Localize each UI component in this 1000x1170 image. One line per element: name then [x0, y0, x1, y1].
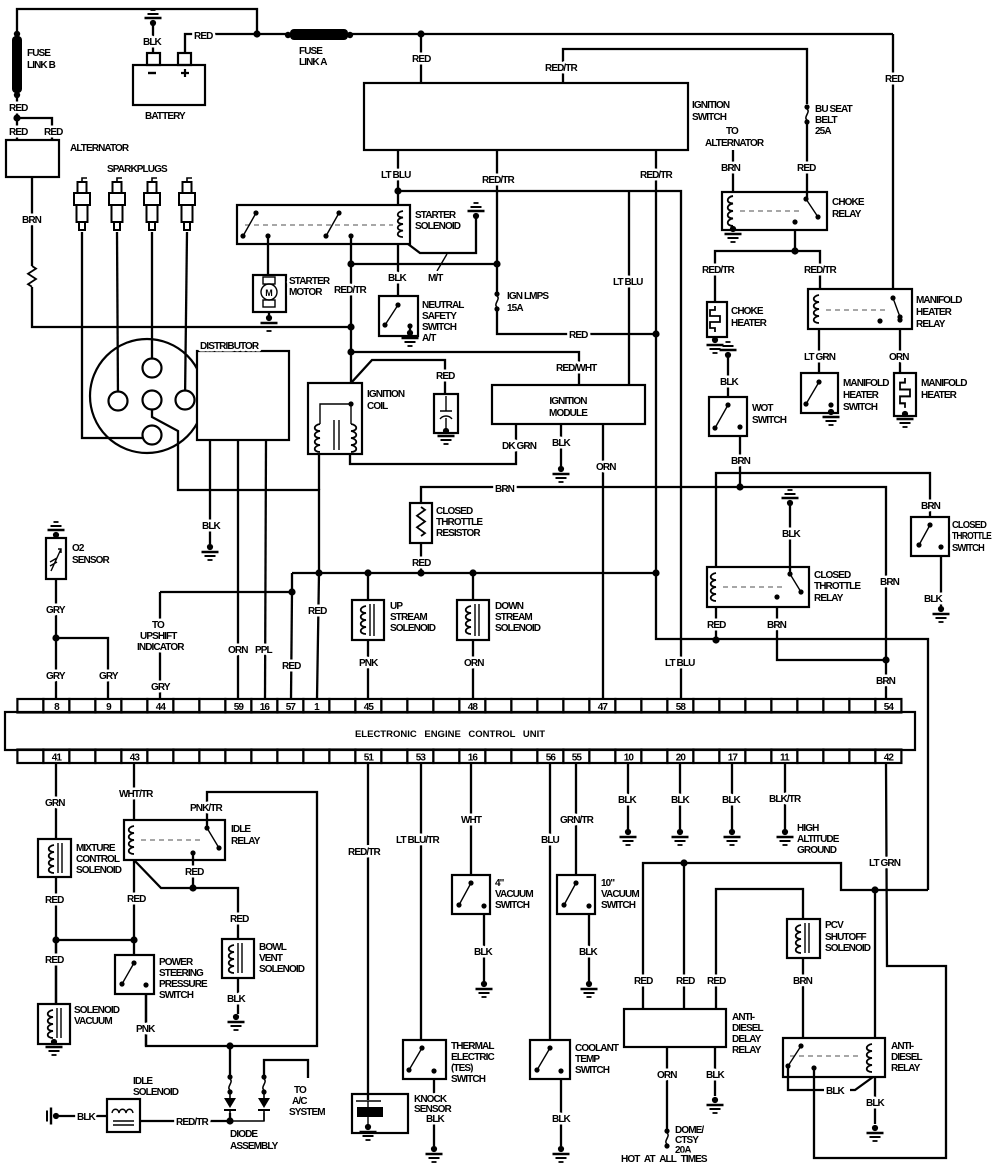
- wire: sparkplug 1 lead to distributor lower tower: [82, 232, 147, 438]
- svg-text:IGNITION: IGNITION: [367, 389, 405, 400]
- svg-text:COOLANT: COOLANT: [575, 1043, 619, 1054]
- svg-text:SWITCH: SWITCH: [952, 543, 985, 554]
- wire: delay relay ORN to dome fuse: [666, 1048, 668, 1129]
- wire: ign lamps fuse to RED junction: [497, 310, 656, 334]
- svg-text:16: 16: [468, 753, 479, 764]
- ground: 4in vacuum: [476, 981, 493, 997]
- svg-text:BLK: BLK: [143, 37, 163, 48]
- ground: idle solenoid side: [47, 1108, 59, 1125]
- wire: TES switch BLK to ground: [433, 1079, 435, 1146]
- svg-text:PRESSURE: PRESSURE: [159, 979, 208, 990]
- ignition module U3: [492, 385, 645, 424]
- svg-text:A/C: A/C: [292, 1096, 307, 1107]
- wire: idle relay coil diagonal to bowl vent line: [134, 860, 238, 939]
- svg-text:BRN: BRN: [880, 577, 900, 588]
- WOT switch: [709, 397, 747, 436]
- wire: alternator BRN with resistor to ignition coil junction: [32, 177, 351, 327]
- wire: top-left feed from fuse link B to battery column: [17, 9, 257, 36]
- wire: closed throttle resistor to RED rail: [420, 543, 422, 573]
- svg-text:BRN: BRN: [793, 976, 813, 987]
- down stream solenoid L2: [457, 600, 489, 640]
- svg-text:RED: RED: [44, 127, 63, 138]
- svg-text:41: 41: [52, 753, 63, 764]
- svg-text:BLK: BLK: [474, 947, 494, 958]
- ground: choke relay coil: [725, 226, 742, 242]
- svg-text:RED: RED: [797, 163, 816, 174]
- svg-text:RESISTOR: RESISTOR: [436, 528, 481, 539]
- svg-text:BRN: BRN: [22, 215, 42, 226]
- ground: pin11 high altitude: [777, 829, 794, 845]
- svg-text:55: 55: [572, 753, 583, 764]
- starter motor M1: [253, 275, 286, 312]
- svg-text:VENT: VENT: [259, 953, 283, 964]
- svg-text:RED/TR: RED/TR: [334, 285, 368, 296]
- svg-text:MODULE: MODULE: [549, 408, 588, 419]
- svg-text:BRN: BRN: [767, 620, 787, 631]
- svg-text:SWITCH: SWITCH: [752, 415, 787, 426]
- svg-text:51: 51: [364, 753, 375, 764]
- svg-text:STREAM: STREAM: [390, 612, 427, 623]
- svg-text:HEATER: HEATER: [921, 390, 958, 401]
- fuse link B: [14, 31, 20, 37]
- wire: 10in vacuum switch BLK to ground: [588, 914, 590, 982]
- idle relay K5: [124, 820, 225, 860]
- svg-text:SOLENOID: SOLENOID: [495, 623, 541, 634]
- ground: starter solenoid M/T: [468, 203, 485, 219]
- wire: WOT switch ground stem: [727, 358, 729, 397]
- ground: WOT switch top: [720, 342, 737, 358]
- svg-text:RED/TR: RED/TR: [545, 63, 579, 74]
- node: rail junctions: [315, 569, 322, 576]
- svg-text:BLK/TR: BLK/TR: [769, 794, 802, 805]
- svg-text:ORN: ORN: [464, 658, 484, 669]
- svg-text:DIESEL: DIESEL: [732, 1023, 764, 1034]
- wire: anti-diesel relay BLK bent link: [788, 1066, 873, 1090]
- svg-text:TO: TO: [294, 1085, 307, 1096]
- svg-text:LT BLU: LT BLU: [613, 277, 643, 288]
- svg-text:SOLENOID: SOLENOID: [415, 221, 461, 232]
- wire: module BLK pin to ground: [560, 424, 562, 467]
- wire: BU seat belt fuse to choke relay: [806, 122, 808, 199]
- ground: module BLK: [553, 466, 570, 482]
- svg-text:STARTER: STARTER: [289, 276, 331, 287]
- svg-text:20: 20: [676, 753, 687, 764]
- wire: idle relay output RED: [192, 853, 194, 888]
- svg-text:RED/WHT: RED/WHT: [556, 363, 597, 374]
- wire: LT BLU into ignition module: [628, 191, 630, 385]
- svg-text:GRY: GRY: [46, 605, 66, 616]
- wire: fuse link B lower lead and RED junction to alternator: [17, 94, 52, 140]
- svg-text:CONTROL: CONTROL: [76, 854, 120, 865]
- svg-text:BLK: BLK: [77, 1112, 97, 1123]
- svg-text:RELAY: RELAY: [231, 836, 261, 847]
- svg-text:BLK: BLK: [227, 994, 247, 1005]
- svg-text:SOLENOID: SOLENOID: [133, 1087, 179, 1098]
- O2 sensor B1: [46, 538, 66, 579]
- svg-text:GRN/TR: GRN/TR: [560, 815, 595, 826]
- wire: coil positive lead down to pin1 line: [318, 454, 320, 490]
- diode D1: [224, 1098, 236, 1108]
- svg-text:BLK: BLK: [552, 438, 572, 449]
- svg-text:SHUTOFF: SHUTOFF: [825, 932, 867, 943]
- svg-text:RED: RED: [9, 103, 28, 114]
- ground: closed throttle relay feed: [782, 490, 799, 506]
- svg-text:UPSHIFT: UPSHIFT: [140, 631, 177, 642]
- svg-text:BOWL: BOWL: [259, 942, 287, 953]
- wire: RED/WHT from junction to ignition module: [351, 352, 579, 385]
- knock sensor B2: [352, 1094, 408, 1133]
- svg-text:BRN: BRN: [495, 484, 515, 495]
- svg-text:IDLE: IDLE: [133, 1076, 153, 1087]
- wire: RED rail: [292, 573, 656, 592]
- svg-text:THERMAL: THERMAL: [451, 1041, 494, 1052]
- svg-text:DISTRIBUTOR: DISTRIBUTOR: [200, 341, 260, 352]
- wire: diode assembly drop 1: [229, 1046, 231, 1075]
- wire: delay relay RED feed 3 and PCV branch: [716, 889, 803, 1009]
- svg-text:RED/TR: RED/TR: [702, 265, 736, 276]
- node: RED bus junctions: [253, 30, 260, 37]
- svg-text:PNK: PNK: [136, 1024, 156, 1035]
- ground: closed throttle switch: [933, 606, 950, 622]
- manifold heater R3: [894, 373, 916, 416]
- svg-text:BLK: BLK: [722, 795, 742, 806]
- coolant temp switch: [530, 1040, 570, 1079]
- svg-text:LT BLU/TR: LT BLU/TR: [396, 835, 440, 846]
- thermal electric TES switch: [403, 1040, 446, 1079]
- wire: ECU pin 11 BLK/TR to high altitude ground: [784, 763, 786, 830]
- svg-text:BELT: BELT: [815, 115, 838, 126]
- svg-text:10": 10": [601, 878, 615, 889]
- svg-text:HEATER: HEATER: [916, 307, 953, 318]
- wire: distributor ORN to ECU pin 59: [237, 440, 239, 699]
- wire: TO ALTERNATOR BRN into choke relay coil: [732, 150, 734, 192]
- svg-text:WHT/TR: WHT/TR: [119, 789, 154, 800]
- wire: starter solenoid switch output to starter motor: [267, 236, 269, 275]
- svg-text:42: 42: [884, 753, 895, 764]
- wire: ECU pin 20 BLK to ground: [679, 763, 681, 830]
- ECU top pin row: [17, 699, 901, 713]
- ECU bottom pin row: [17, 750, 901, 764]
- svg-text:ALTITUDE: ALTITUDE: [797, 834, 840, 845]
- wire: manifold heater relay coil to manifold heater switch: [818, 329, 820, 373]
- svg-text:ALTERNATOR: ALTERNATOR: [705, 138, 765, 149]
- svg-text:PPL: PPL: [255, 645, 273, 656]
- svg-text:CLOSED: CLOSED: [952, 520, 987, 531]
- wire: upshift indicator line: [160, 592, 292, 699]
- wire: sparkplug 4 lead: [185, 232, 187, 400]
- wire: ECU pin 51 RED/TR to knock sensor: [367, 763, 369, 1100]
- svg-text:UP: UP: [390, 601, 403, 612]
- svg-text:SENSOR: SENSOR: [72, 555, 111, 566]
- anti-diesel delay relay K6: [624, 1009, 726, 1047]
- svg-text:(TES): (TES): [451, 1063, 473, 1074]
- ground: pin10 BLK: [620, 829, 637, 845]
- svg-text:M: M: [265, 288, 273, 298]
- wire: anti-diesel relay coil feed: [874, 890, 876, 1038]
- svg-text:SWITCH: SWITCH: [495, 900, 530, 911]
- svg-text:IGN LMPS: IGN LMPS: [507, 291, 549, 302]
- svg-text:SWITCH: SWITCH: [692, 112, 727, 123]
- wire: distributor rotor to pickup line: [152, 400, 319, 573]
- svg-text:RED: RED: [230, 914, 249, 925]
- diode D2: [258, 1098, 270, 1108]
- wire: idle relay PNK/TR loop to diode assembly: [146, 792, 317, 1046]
- svg-text:ELECTRIC: ELECTRIC: [451, 1052, 494, 1063]
- svg-text:SWITCH: SWITCH: [575, 1065, 610, 1076]
- closed throttle switch: [911, 517, 949, 556]
- svg-text:THROTTLE: THROTTLE: [436, 517, 483, 528]
- node: BRN junction pin54: [882, 656, 889, 663]
- svg-text:SOLENOID: SOLENOID: [74, 1005, 120, 1016]
- svg-text:POWER: POWER: [159, 957, 194, 968]
- resistor in BRN lead: [28, 266, 36, 287]
- svg-text:STEERING: STEERING: [159, 968, 204, 979]
- svg-text:CLOSED: CLOSED: [814, 570, 851, 581]
- ground: distributor BLK: [202, 544, 219, 560]
- wire: delay relay BLK to ground: [714, 1048, 716, 1096]
- svg-text:RELAY: RELAY: [891, 1063, 921, 1074]
- fuse: diode assembly 2: [261, 1074, 266, 1094]
- ground: coolant temp switch: [553, 1146, 570, 1162]
- ground: delay relay BLK: [707, 1097, 724, 1113]
- wire: manifold heater relay output to manifold heater: [899, 329, 901, 373]
- wire: battery ground stem: [152, 25, 154, 53]
- svg-text:BLK: BLK: [388, 273, 408, 284]
- wire: delay relay RED feed 2: [683, 863, 685, 1009]
- svg-text:NEUTRAL: NEUTRAL: [422, 300, 464, 311]
- O2 sensor ground: [48, 522, 65, 538]
- svg-text:SOLENOID: SOLENOID: [76, 865, 122, 876]
- svg-text:MANIFOLD: MANIFOLD: [843, 378, 889, 389]
- svg-text:PCV: PCV: [825, 920, 844, 931]
- svg-text:BRN: BRN: [876, 676, 896, 687]
- wire: M/T label pointer: [437, 254, 447, 271]
- svg-text:RED: RED: [45, 955, 64, 966]
- svg-text:SOLENOID: SOLENOID: [825, 943, 871, 954]
- svg-text:ORN: ORN: [889, 352, 909, 363]
- closed throttle resistor R1: [410, 503, 432, 543]
- svg-text:11: 11: [780, 753, 790, 764]
- svg-text:ORN: ORN: [596, 462, 616, 473]
- svg-text:FUSE: FUSE: [27, 48, 51, 59]
- svg-text:56: 56: [546, 753, 557, 764]
- svg-text:4": 4": [495, 878, 505, 889]
- svg-text:BRN: BRN: [921, 501, 941, 512]
- ground: 10in vacuum: [581, 981, 598, 997]
- wire: downstream solenoid taps: [472, 573, 474, 699]
- svg-text:TEMP: TEMP: [575, 1054, 600, 1065]
- svg-text:RED: RED: [436, 371, 455, 382]
- svg-text:ALTERNATOR: ALTERNATOR: [70, 143, 130, 154]
- node: BRN to coil junction: [347, 323, 354, 330]
- node: RED junction on RED/TR line: [712, 636, 719, 643]
- svg-text:CHOKE: CHOKE: [832, 197, 865, 208]
- ground: pin17 BLK: [724, 829, 741, 845]
- wire: ECU pin 16 WHT to 4in vacuum switch: [470, 763, 472, 875]
- svg-text:BLK: BLK: [552, 1114, 572, 1125]
- ground: bowl vent BLK: [228, 1014, 245, 1030]
- svg-text:47: 47: [598, 702, 609, 713]
- wire: anti-diesel relay switch pin down: [813, 1068, 815, 1077]
- svg-text:ANTI-: ANTI-: [732, 1012, 755, 1023]
- svg-text:GRY: GRY: [99, 671, 119, 682]
- svg-text:BLK: BLK: [618, 795, 638, 806]
- battery: [133, 65, 205, 105]
- svg-text:BLK: BLK: [826, 1086, 846, 1097]
- starter solenoid K1: [237, 205, 410, 244]
- condenser C1: [434, 394, 458, 433]
- PCV shutoff solenoid L7: [787, 919, 820, 958]
- svg-text:VACUUM: VACUUM: [495, 889, 533, 900]
- wire: LT GRN branch into delay relay feeds: [643, 863, 928, 1009]
- svg-text:ASSEMBLY: ASSEMBLY: [230, 1141, 279, 1152]
- wire: anti-diesel relay coil to ground: [874, 1077, 876, 1124]
- svg-text:STREAM: STREAM: [495, 612, 532, 623]
- svg-text:BLK: BLK: [866, 1098, 886, 1109]
- svg-text:LT GRN: LT GRN: [869, 858, 901, 869]
- svg-text:10: 10: [624, 753, 635, 764]
- svg-text:53: 53: [416, 753, 427, 764]
- sparkplug 4: [179, 178, 195, 230]
- svg-text:ANTI-: ANTI-: [891, 1041, 914, 1052]
- wire: ECU pin 55 GRN/TR to 10in vacuum switch: [575, 763, 577, 875]
- solenoid vacuum L5: [38, 1004, 70, 1044]
- 10 inch vacuum switch: [557, 875, 595, 914]
- ECU band: [5, 712, 915, 750]
- ground: starter motor: [261, 315, 278, 331]
- svg-text:STARTER: STARTER: [415, 210, 457, 221]
- node: RED split: [52, 936, 59, 943]
- fuse link A: [285, 32, 291, 38]
- svg-text:BLK: BLK: [202, 521, 222, 532]
- wire: closed throttle relay coil to closed throttle switch feed: [716, 473, 930, 567]
- svg-text:RED: RED: [634, 976, 653, 987]
- svg-text:16: 16: [260, 702, 271, 713]
- wire: bowl vent solenoid BLK to ground: [237, 978, 239, 1014]
- svg-text:TO: TO: [726, 126, 739, 137]
- svg-text:BLK: BLK: [782, 529, 802, 540]
- wire: O2 sensor GRY to pin 8 and pin 9 branch: [56, 579, 108, 699]
- ground: anti-diesel relay: [867, 1125, 884, 1141]
- svg-text:43: 43: [130, 753, 141, 764]
- svg-text:MOTOR: MOTOR: [289, 287, 323, 298]
- wire: diode 2 lead: [230, 1113, 264, 1121]
- svg-text:RED: RED: [676, 976, 695, 987]
- wire: neutral safety switch ground pin: [409, 326, 411, 331]
- wire: solenoid vacuum lead: [55, 940, 57, 1004]
- svg-text:DOWN: DOWN: [495, 601, 524, 612]
- wire: upstream solenoid taps: [367, 573, 369, 699]
- wire: closed throttle relay coil bottom RED to junction: [715, 607, 717, 640]
- wire: RED drop to ignition switch: [420, 34, 422, 83]
- wire: ignition switch LT BLU pin to starter solenoid: [397, 150, 399, 205]
- svg-text:LINK B: LINK B: [27, 60, 56, 71]
- wire: BRN line resistor to ECU pin 54: [421, 487, 886, 699]
- wire: RED drop to pin 1: [317, 573, 319, 699]
- svg-text:BLK: BLK: [720, 377, 740, 388]
- wire: PCV shutoff BRN to anti-diesel relay: [802, 958, 804, 1038]
- svg-text:RED: RED: [707, 976, 726, 987]
- idle solenoid L6: [107, 1099, 140, 1132]
- alternator U2: [6, 140, 59, 177]
- svg-text:WHT: WHT: [461, 815, 482, 826]
- battery ground: [145, 10, 162, 26]
- wire: ignition coil feed diagonal and condenser branch: [351, 360, 445, 394]
- svg-text:25A: 25A: [815, 126, 831, 137]
- svg-text:54: 54: [884, 702, 895, 713]
- svg-text:BATTERY: BATTERY: [145, 111, 186, 122]
- svg-text:DIESEL: DIESEL: [891, 1052, 923, 1063]
- wire: RED rail drop to pin 57: [291, 592, 292, 699]
- wire: choke relay output to RED/TR splitter: [715, 230, 820, 302]
- wire: sparkplug 3 lead: [151, 232, 153, 368]
- sparkplug 1: [74, 178, 90, 230]
- wire: ignition switch RED/TR pin 3 down: [656, 150, 928, 890]
- wire: distributor PPL to ECU pin 16: [265, 440, 266, 699]
- svg-text:SPARKPLUGS: SPARKPLUGS: [107, 164, 168, 175]
- wire: distributor BLK to ground: [209, 440, 211, 544]
- distributor towers: [143, 359, 162, 378]
- node: fuse link B split: [13, 114, 20, 121]
- neutral safety switch: [379, 296, 418, 336]
- ground: knock sensor: [360, 1124, 377, 1140]
- wire: starter motor ground stem: [268, 312, 270, 316]
- svg-text:BLK: BLK: [426, 1114, 446, 1125]
- svg-text:MANIFOLD: MANIFOLD: [916, 295, 962, 306]
- wire: idle solenoid BLK to side ground: [59, 1115, 107, 1117]
- svg-text:17: 17: [728, 753, 739, 764]
- ground: manifold heater switch: [823, 409, 840, 425]
- svg-text:RELAY: RELAY: [814, 593, 844, 604]
- mixture control solenoid L3: [38, 839, 71, 877]
- svg-text:GRY: GRY: [151, 682, 171, 693]
- wire: ignition switch RED/TR pin to ign lamps fuse: [496, 150, 498, 293]
- svg-text:TO: TO: [152, 620, 165, 631]
- node: choke relay output: [791, 247, 798, 254]
- wire: ECU pin 10 BLK to ground: [627, 763, 629, 830]
- svg-text:IGNITION: IGNITION: [549, 396, 587, 407]
- svg-text:VACUUM: VACUUM: [74, 1016, 112, 1027]
- svg-text:HIGH: HIGH: [797, 823, 819, 834]
- svg-text:SOLENOID: SOLENOID: [259, 964, 305, 975]
- choke relay K2: [722, 192, 827, 230]
- manifold heater switch: [801, 373, 838, 413]
- svg-text:RED/TR: RED/TR: [482, 175, 516, 186]
- svg-text:IGNITION: IGNITION: [692, 100, 730, 111]
- wire: RED right vertical to manifold heater relay: [892, 34, 894, 289]
- wire: RED branch mixture to PSPS: [56, 940, 134, 955]
- svg-text:RED: RED: [127, 894, 146, 905]
- svg-text:LINK A: LINK A: [299, 57, 327, 68]
- svg-text:BLK: BLK: [579, 947, 599, 958]
- ground: solenoid vacuum: [46, 1039, 63, 1055]
- ground: choke heater: [707, 337, 724, 353]
- manifold heater relay K3: [808, 289, 912, 329]
- svg-text:RED/TR: RED/TR: [176, 1117, 210, 1128]
- wire: diode 1 to RED/TR node: [229, 1113, 231, 1121]
- distributor cap circle: [90, 339, 204, 453]
- svg-text:HEATER: HEATER: [731, 318, 768, 329]
- bowl vent solenoid L4: [222, 939, 254, 978]
- svg-text:RED: RED: [412, 558, 431, 569]
- choke heater R2: [707, 302, 727, 337]
- svg-text:COIL: COIL: [367, 401, 388, 412]
- svg-text:58: 58: [676, 702, 687, 713]
- svg-text:RED: RED: [569, 330, 588, 341]
- svg-text:PNK: PNK: [359, 658, 379, 669]
- node: delay relay feed 2: [680, 859, 687, 866]
- sparkplug 2: [109, 178, 125, 230]
